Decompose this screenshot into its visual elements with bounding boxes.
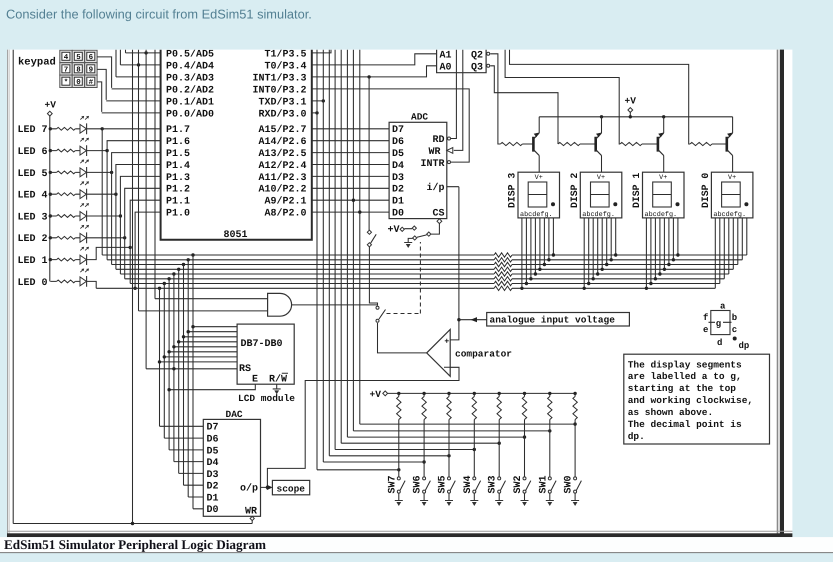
switch ADC CS ground contact [413,236,417,240]
svg-text:SW7: SW7 [387,475,398,493]
latch Q2 output circle [487,52,490,55]
resistor R_sw2 [522,397,526,420]
resistor R_seg2 [494,258,512,262]
ground SW1 [549,493,551,500]
wire DISP 0 pin f [737,218,739,265]
switch SW6 top contact [423,477,426,480]
display DISP 1 seven segment glyph [653,182,672,207]
node DISP 3 pin . tap [552,253,555,256]
wire LED 3 to P1.3 net [87,215,121,217]
resistor R_sw7 [397,397,401,420]
panel right border [777,50,779,537]
wire bus line 4 [116,268,494,270]
wire DB5 into DAC D5 [184,484,204,486]
svg-text:analogue input voltage: analogue input voltage [490,315,616,326]
wire Q2 to transistor Q_3 base [490,54,500,144]
svg-text:RD: RD [432,135,444,146]
node SW1 tap [548,429,551,432]
wire DB3 vertical [173,274,175,462]
resistor R_LED6 [50,150,56,152]
switch blade [379,310,386,320]
ADC box [389,122,447,218]
wire LED 6 to P1.6 net [87,150,108,152]
svg-text:starting at the top: starting at the top [628,383,737,394]
wire DB0 vertical [159,288,161,426]
wire DISP 0 pin g [741,218,743,260]
transistor Q2 [594,137,597,152]
switch ADC CS common contact [427,232,431,236]
ground SW3 [498,493,500,500]
panel bottom border [7,530,792,532]
svg-text:P0.1/AD1: P0.1/AD1 [166,96,214,108]
wire DISP 1 pin . [677,218,679,255]
transistor Q3 [532,137,535,152]
wire vertical feeder LCD RS [145,49,147,369]
wire DISP 3 pin b [525,218,527,284]
node LED 4 tap [114,193,117,196]
svg-text:A0: A0 [440,62,452,73]
svg-text:LED 7: LED 7 [17,125,47,136]
display DISP 0 box [711,172,753,218]
switch SW1 bottom contact [548,490,551,493]
switch SW0 blade [576,481,581,491]
resistor R_LED2 [50,237,56,239]
wire INT1/P3.3 to latch A0 [312,66,437,77]
svg-text:P0.3/AD3: P0.3/AD3 [166,72,214,84]
node DISP 1 pin g tap [672,258,675,261]
svg-text:D6: D6 [392,137,404,148]
switch SW1 top contact [548,477,551,480]
node LED 7 supply junction [49,127,52,130]
svg-text:LED 5: LED 5 [17,169,47,180]
wire P0.1 row [106,100,160,102]
wire DB1 vertical [163,284,165,439]
svg-text:P1.4: P1.4 [166,161,190,172]
wire DISP 1 pin a [645,218,647,288]
svg-text:DISP 0: DISP 0 [700,173,711,208]
wire keypad row 456 to P0.2 [97,57,111,88]
svg-text:V+: V+ [597,174,605,182]
node DISP 3 pin a tap [520,287,523,290]
svg-text:DB7-DB0: DB7-DB0 [241,339,283,350]
switch SW2 bottom contact [523,490,526,493]
wire SW6 column [423,420,425,477]
wire DISP 2 pin g [610,218,612,260]
svg-text:LED 4: LED 4 [17,191,47,202]
node DB vertical tap line 4 [177,268,180,271]
switch SW3 bottom contact [498,490,501,493]
svg-text:V+: V+ [659,174,667,182]
LED D2 [80,233,86,242]
wire LED 5 to P1.5 net [87,171,112,173]
node ADC D1 tap on bundle [352,199,355,202]
switch SW3 top contact [498,477,501,480]
svg-text:D1: D1 [392,197,404,208]
node DISP 1 pin a tap [645,287,648,290]
node DISP 3 pin f tap [543,263,546,266]
svg-text:D1: D1 [207,493,219,504]
node LCD DB5 tap [182,335,185,338]
svg-text:A8/P2.0: A8/P2.0 [264,208,306,220]
node LCD E tap on P1.2 net [167,388,170,391]
ground SW2 [524,493,526,500]
svg-text:D7: D7 [207,423,219,434]
switch SW1 blade [551,481,556,491]
node DISP 1 pin e tap [663,268,666,271]
svg-text:d: d [717,338,722,348]
resistor R_seg7 [494,281,512,285]
wire ADC i/p to analogue node [447,186,459,188]
node LED 1 tap [129,246,132,249]
wire DB3 into DAC D3 [174,461,203,463]
svg-text:D4: D4 [392,161,404,172]
svg-text:D3: D3 [392,173,404,184]
svg-text:P0.0/AD0: P0.0/AD0 [166,108,214,120]
node DISP 1 pin d tap [658,272,661,275]
wire DISP 0 pin . [746,218,748,255]
node SW0 tap [573,422,576,425]
wire TXD/P3.1 row [312,100,324,102]
wire ADC D6 to 8051 A14 [312,140,389,142]
wire DISP 2 pin c [592,218,594,279]
svg-text:f: f [703,313,708,323]
wire DB4 into DAC D4 [179,472,204,474]
svg-text:Q3: Q3 [471,62,483,73]
svg-text:7: 7 [64,67,69,75]
switch INT1 link bottom contact [367,243,371,247]
wire A9/P2.1 vertical to SW1 [352,49,354,431]
wire P0.2 row [112,88,161,90]
wire DB7 vertical [192,255,194,509]
node SW3 tap [498,442,501,445]
wire A15/P2.7 vertical to SW7 [316,49,318,470]
node SW7 rail junction [397,392,400,395]
node DB vertical tap line 3 [182,263,185,266]
wire DISP 0 pin d [728,218,730,274]
node P1.0 joins bus line 8 [133,287,136,290]
svg-text:T1/P3.5: T1/P3.5 [264,48,306,60]
wire DISP 3 pin . [552,218,554,255]
wire DISP 2 pin . [615,218,617,255]
resistor R_seg8 [494,286,512,290]
resistor R_disp2 [558,142,580,145]
dashed link to ADC CS switch [387,313,421,315]
svg-text:5: 5 [76,54,81,62]
switch ADC CS blade [417,235,427,237]
svg-text:i/p: i/p [426,182,444,194]
node DB vertical tap line 2 [187,258,190,261]
wire ADC D0 to 8051 A8 [312,211,389,213]
svg-text:P1.2: P1.2 [166,185,190,196]
svg-text:R/W: R/W [269,374,287,386]
wire A11/P2.3 vertical to SW3 [340,49,342,443]
resistor R_sw3 [497,397,501,420]
wire DISP 2 pin e [601,218,603,269]
svg-text:D5: D5 [207,446,219,457]
wire ADC D2 to 8051 A10 [312,187,389,189]
node LED 3 tap [119,214,122,217]
display DISP 0 decimal point [744,202,748,206]
wire DISP 2 pin d [597,218,599,274]
wire A13/P2.5 vertical to SW5 [328,49,330,456]
ground for LCD R/W [276,384,278,389]
wire LED 2 to P1.2 net [87,237,125,239]
wire ADC WR up [454,49,463,150]
resistor R_seg5 [494,272,512,276]
wire transistor Q3 emitter to display [538,156,540,173]
wire transistor Q2 emitter to display [601,156,603,173]
svg-text:A1: A1 [440,50,452,61]
node DB vertical tap line 7 [163,282,166,285]
wire bus line 3 [112,264,495,266]
node DAC output junction [266,486,269,489]
node RS tap on P1.3 net [172,367,175,370]
svg-text:P1.3: P1.3 [166,173,190,184]
display DISP 3 seven segment glyph [528,182,547,207]
wire bus line 6 [125,278,494,280]
node P0.5 junction [144,51,147,54]
svg-text:*: * [64,78,69,87]
wire DISP 2 pin b [588,218,590,284]
node rail T2 [600,115,603,118]
display DISP 1 box [643,172,685,218]
switch SW5 bottom contact [448,490,451,493]
resistor R_LED0 [50,280,56,282]
node DB vertical tap line 5 [172,272,175,275]
svg-text:+V: +V [625,96,637,107]
node DB vertical tap line 6 [167,277,170,280]
wire left routing rail down left side [12,49,14,524]
node DISP 3 pin b tap [525,282,528,285]
wire A14/P2.6 vertical to SW6 [322,49,324,462]
wire P1.0 pin to vertical [135,212,161,288]
wire DAC WR run along bottom [13,523,252,525]
wire transistor Q0 emitter to display [732,156,734,173]
wire DB0 into DAC D0 [160,425,204,427]
switch comparator select bottom contact [376,319,379,322]
svg-text:0: 0 [76,78,81,87]
svg-text:SW5: SW5 [438,475,449,493]
svg-text:D2: D2 [392,185,404,196]
node P0.4 junction [137,63,140,66]
switch SW4 bottom contact [473,490,476,493]
svg-text:dp.: dp. [628,431,645,442]
wire LCD DB6 row [188,331,237,333]
node SW3 rail junction [498,392,501,395]
ADC INTR pin circle [448,161,451,164]
svg-text:LED 3: LED 3 [17,212,47,223]
wire SW5 column [448,420,450,477]
wire LCD DB7 row [193,326,237,328]
node SW5 rail junction [447,392,450,395]
wire A12/P2.4 vertical to SW4 [334,49,336,450]
transistor Q0 [725,137,728,152]
svg-text:P1.0: P1.0 [166,209,190,220]
svg-text:9: 9 [89,66,94,75]
svg-text:o/p: o/p [240,483,258,495]
resistor R_disp1 [620,142,642,145]
LED D7 [80,124,86,133]
wire P1.7 pin to vertical [102,129,160,255]
comparator - marker [444,366,450,368]
svg-text:D0: D0 [392,209,404,220]
svg-text:+: + [444,337,449,346]
svg-text:TXD/P3.1: TXD/P3.1 [258,96,306,108]
legend seven segment box [711,311,730,335]
svg-text:SW6: SW6 [413,475,424,493]
wire INT1 down to CS switch [368,77,370,230]
LED D1 [80,255,86,264]
wire SW7 column [398,420,400,477]
keypad 3x4 matrix [60,50,72,62]
svg-text:+V: +V [45,100,57,111]
wire DB1 into DAC D1 [164,437,203,439]
svg-text:P1.5: P1.5 [166,149,190,160]
wire LED 4 to P1.4 net [87,193,116,195]
caption underline [0,552,833,554]
wire DISP 3 pin c [530,218,532,279]
display DISP 3 decimal point [551,202,555,206]
ADC RD pin circle [448,137,451,140]
svg-text:T0/P3.4: T0/P3.4 [264,60,306,72]
wire Q3 to transistor Q_2 base [490,66,558,144]
switch SW6 bottom contact [423,490,426,493]
switch SW5 blade [450,481,455,491]
resistor R_sw5 [447,397,451,420]
wire P1.6 pin to vertical [107,141,161,260]
wire DB7 into DAC D7 [193,508,203,510]
switch SW2 blade [526,481,531,491]
wire LED 0 to P1.0 net / bus line 8 [87,281,97,288]
wire INT1 link down to comparator switch [369,247,377,306]
svg-text:DISP 2: DISP 2 [569,173,580,208]
legend dp dot [733,337,737,341]
node SW2 rail junction [523,392,526,395]
wire T1/P3.5 cropped up [312,49,331,53]
svg-text:D5: D5 [392,149,404,160]
node SW4 rail junction [473,392,476,395]
ground SW7 [398,493,400,500]
svg-text:INT1/P3.3: INT1/P3.3 [252,72,306,84]
wire LCD DB4 row [179,341,237,343]
wire bus line 2 [107,259,494,261]
svg-text:The display segments: The display segments [628,359,742,370]
svg-text:A11/P2.3: A11/P2.3 [258,172,306,184]
wire keypad row *0# to P0.0 [97,82,102,112]
node LED 6 supply junction [49,149,52,152]
svg-text:INT0/P3.2: INT0/P3.2 [252,84,306,96]
node TXD junction [322,99,325,102]
wire vertical feeder AND input 2 [138,49,140,311]
wire DISP 1 pin d [659,218,661,274]
svg-text:e: e [703,325,708,335]
wire DB4 vertical [178,269,180,473]
wire select line to transistor Q_0 base [510,49,691,144]
svg-text:D3: D3 [207,470,219,481]
switch SW3 blade [501,481,506,491]
node DISP 2 pin c tap [592,277,595,280]
wire bus line 8 [96,287,494,289]
wire T0/P3.4 to latch A1 [312,54,437,65]
note box display segments [624,354,770,444]
svg-text:Q2: Q2 [471,50,483,61]
node DISP 1 pin b tap [649,282,652,285]
wire transistor Q3 collector to rail [538,117,540,133]
wire comparator plus input [450,187,459,340]
wire DISP 3 pin d [534,218,536,274]
svg-text:E: E [252,375,258,386]
switch SW4 blade [476,481,481,491]
node LED 1 supply junction [49,258,52,261]
wire DISP 0 pin b [719,218,721,284]
svg-text:P1.1: P1.1 [166,197,190,208]
svg-text:DISP 3: DISP 3 [507,173,518,208]
switch SW0 top contact [574,477,577,480]
svg-text:g: g [716,319,721,329]
node DISP 2 pin a tap [583,287,586,290]
DAC box [203,419,260,516]
wire DB5 vertical [183,265,185,486]
wire P1.5 pin to vertical [112,153,161,265]
svg-text:a: a [720,302,726,312]
svg-text:ADC: ADC [411,112,428,123]
display DISP 2 seven segment glyph [591,182,610,207]
wire RXD/P3.0 row [312,112,317,114]
wire P1.1 pin to vertical [130,200,160,283]
svg-text:LED 2: LED 2 [17,234,47,245]
switch INT1 link blade [371,234,377,243]
wire DISP 1 pin c [654,218,656,279]
wire LED 7 to P1.7 net [87,128,103,130]
svg-text:abcdefg.: abcdefg. [645,211,678,219]
resistor R_seg3 [494,262,512,266]
node SW0 rail junction [573,392,576,395]
svg-text:keypad: keypad [18,56,56,68]
svg-text:A15/P2.7: A15/P2.7 [258,124,306,136]
resistor R_seg1 [494,253,512,257]
analogue input voltage box [487,313,630,327]
wire DISP 3 pin e [539,218,541,269]
wire AND input 2 [139,310,268,312]
wire DAC output to scope [261,486,268,488]
svg-text:CS: CS [432,209,444,220]
node DB vertical tap line 8 [158,287,161,290]
node DISP 3 pin c tap [529,277,532,280]
wire DB6 into DAC D6 [188,496,203,498]
svg-text:D4: D4 [207,458,219,469]
node DISP 3 pin g tap [547,258,550,261]
node DISP 1 pin . tap [676,253,679,256]
svg-text:Consider the following circuit: Consider the following circuit from EdSi… [6,7,312,22]
LED D5 [80,168,86,177]
wire SW2 column [524,420,526,477]
panel left border [7,50,9,537]
svg-text:SW0: SW0 [564,475,575,493]
wire A8/P2.0 vertical to SW0 [359,49,361,424]
node DISP 3 pin d tap [534,272,537,275]
LED D0 [80,277,86,286]
display DISP 2 box [580,172,622,218]
wire vertical feeder to DAC WR run [132,49,134,524]
svg-text:scope: scope [277,483,306,494]
DAC WR pin diamond [251,515,253,517]
node SW1 rail junction [548,392,551,395]
wire P1.4 pin to vertical [116,165,161,270]
switch INT1 link top contact [367,230,371,234]
wire ADC INTR to INT0 [312,89,469,162]
wire DISP 1 pin e [663,218,665,269]
wire select line to transistor Q_1 base [505,49,620,144]
